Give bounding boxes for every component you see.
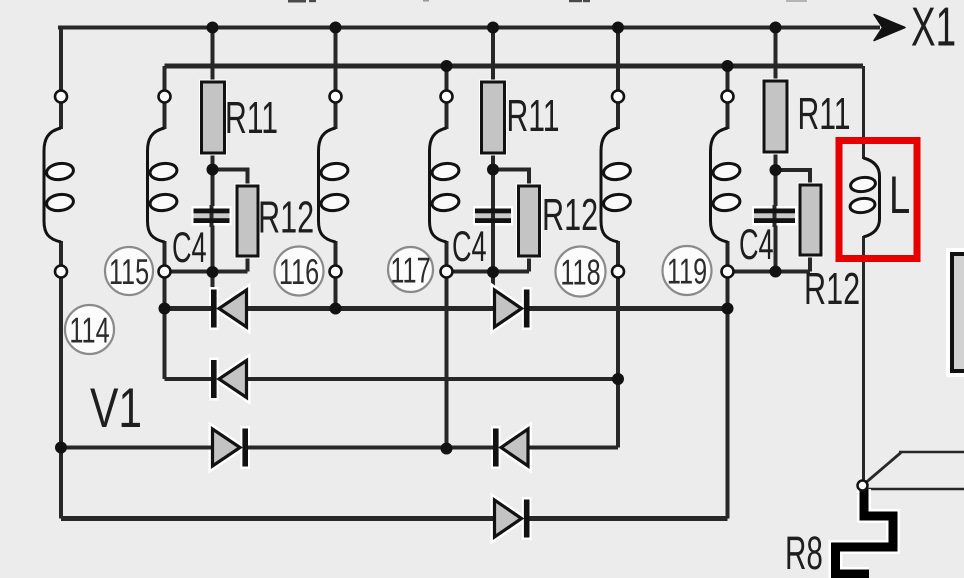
- svg-text:C4: C4: [172, 223, 207, 272]
- capacitor C4 group1: [192, 205, 232, 227]
- node junction (493,27): [487, 22, 499, 34]
- node junction (335,27): [330, 22, 342, 34]
- node junction (212,169): [207, 164, 219, 176]
- terminal circle bottom 119: [722, 266, 734, 278]
- node junction (618,27): [612, 22, 624, 34]
- wire: R8 thick lead: [836, 489, 894, 574]
- svg-text:118: 118: [560, 252, 600, 293]
- terminal circle top 115: [159, 91, 171, 103]
- node junction (727,66): [722, 60, 734, 72]
- svg-text:R12: R12: [804, 264, 860, 314]
- inductor winding 117: [430, 128, 460, 242]
- wire: switch contact upper: [899, 451, 964, 454]
- top edge cut-off marks: [288, 0, 807, 3]
- highlight box around L: [839, 141, 917, 259]
- node junction (164,308): [159, 303, 171, 315]
- wire: column 116 vertical: [334, 28, 338, 309]
- wire: column 117 vertical: [445, 66, 449, 449]
- svg-text:R11: R11: [797, 89, 850, 140]
- wire: diode row B: [165, 377, 619, 381]
- capacitor C4 group2: [473, 205, 513, 227]
- svg-text:V1: V1: [90, 376, 142, 439]
- wire: top bus X1: [58, 26, 880, 30]
- node junction (335,308): [330, 303, 342, 315]
- node 116: [275, 247, 324, 296]
- svg-text:R12: R12: [258, 193, 314, 243]
- svg-text:L: L: [889, 165, 910, 225]
- inductor winding 118: [601, 128, 631, 242]
- resistor R11 group2: [479, 80, 507, 156]
- terminal circle bottom 114: [55, 266, 67, 278]
- resistor R11 group3: [762, 79, 790, 155]
- terminal circle top 117: [441, 91, 453, 103]
- diode V1.5: [484, 426, 539, 469]
- wire: column R11/C4 group3 vertical: [774, 28, 778, 273]
- diode V1.6: [484, 497, 539, 540]
- svg-text:119: 119: [667, 251, 707, 292]
- node junction (775,27): [770, 22, 782, 34]
- node 118: [556, 247, 606, 297]
- svg-text:R12: R12: [542, 190, 598, 240]
- wire: diode row A: [165, 306, 728, 311]
- inductor winding 115: [148, 128, 178, 242]
- wire: X1 arrowhead: [874, 15, 905, 41]
- terminal circle top 119: [722, 91, 734, 103]
- terminal circle bottom 115: [159, 266, 171, 278]
- wire: bottom tie group1: [165, 270, 248, 274]
- wire: R12 top hook group3: [776, 170, 811, 186]
- terminal circle top 118: [612, 91, 624, 103]
- node junction (61,447): [55, 442, 67, 454]
- node 119: [663, 246, 712, 295]
- wire: R12 bottom hook group2: [527, 256, 531, 272]
- wire: bottom tie group2: [447, 270, 530, 274]
- svg-text:117: 117: [390, 250, 430, 291]
- inductor L winding: [849, 158, 879, 237]
- wire: L branch vertical: [862, 66, 865, 481]
- node junction (775,271): [770, 266, 782, 278]
- wire: R12 top hook group2: [493, 170, 529, 187]
- node junction (493,272): [487, 266, 499, 278]
- terminal circle bottom 116: [330, 266, 342, 278]
- node 115: [105, 247, 153, 295]
- svg-text:X1: X1: [911, 0, 956, 57]
- wire: column R11/C4 group2 vertical: [491, 28, 495, 291]
- node junction (775,170): [770, 164, 782, 176]
- resistor R12 group3: [798, 183, 824, 258]
- wire: switch blade diagonal: [867, 453, 902, 483]
- diode V1.3: [202, 358, 257, 401]
- capacitor C4 group3: [752, 205, 797, 227]
- svg-text:114: 114: [69, 310, 109, 351]
- node 117: [388, 247, 433, 292]
- resistor R12 group2: [516, 184, 542, 259]
- svg-text:R11: R11: [225, 93, 278, 144]
- resistor R12 group1: [235, 184, 261, 259]
- wire: switch contact lower: [868, 488, 964, 491]
- inductor winding 114: [44, 128, 74, 242]
- inductor winding 119: [711, 128, 741, 242]
- node junction (446,448): [441, 443, 453, 455]
- wire: column R11/C4 group1 vertical: [211, 28, 215, 291]
- wire: column 115 vertical: [163, 66, 167, 379]
- node 114: [65, 305, 114, 354]
- node junction (446,66): [441, 60, 453, 72]
- node junction (212,272): [207, 266, 219, 278]
- terminal circle top 114: [55, 91, 67, 103]
- svg-text:115: 115: [109, 252, 149, 293]
- terminal circle bottom 117: [441, 266, 453, 278]
- svg-text:R8: R8: [785, 527, 823, 578]
- wire: column 119 vertical: [726, 66, 730, 519]
- node junction (493,169): [487, 164, 499, 176]
- wire: diode row D (bottom): [61, 516, 728, 521]
- wire: diode row C: [61, 446, 618, 450]
- svg-text:R11: R11: [506, 91, 559, 142]
- wire: R12 bottom hook group1: [246, 256, 250, 272]
- wire: bottom tie group3: [728, 270, 811, 274]
- wire: second bus (to L): [165, 64, 864, 69]
- wire: R12 bottom hook group3: [808, 256, 812, 272]
- svg-text:C4: C4: [739, 220, 774, 269]
- wire: row C right corner up: [616, 379, 620, 448]
- switch pivot circle: [858, 481, 868, 491]
- component box (cut off, right edge): [946, 248, 964, 377]
- node junction (212,27): [207, 22, 219, 34]
- diode V1.1: [202, 287, 257, 330]
- svg-text:C4: C4: [452, 222, 487, 271]
- svg-text:116: 116: [279, 252, 319, 293]
- terminal circle top 116: [330, 91, 342, 103]
- wire: left vertical (column 114): [59, 26, 63, 519]
- node junction (727,308): [722, 303, 734, 315]
- wire: R12 top hook group1: [213, 170, 248, 187]
- wire: column 118 vertical: [616, 28, 620, 380]
- diode V1.4: [202, 426, 257, 469]
- resistor R11 group1: [199, 80, 227, 156]
- terminal circle bottom 118: [612, 266, 624, 278]
- node junction (618,379): [612, 373, 624, 385]
- inductor winding 116: [319, 128, 349, 242]
- diode V1.2: [484, 287, 539, 330]
